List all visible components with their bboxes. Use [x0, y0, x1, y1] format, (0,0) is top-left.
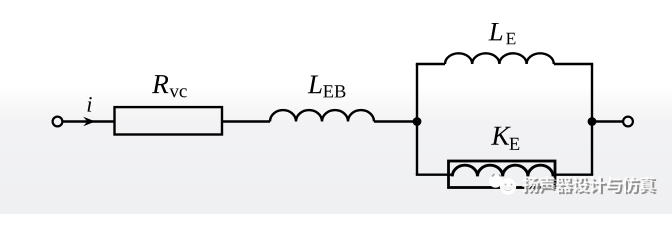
wire: resistor to inductor LEB [222, 120, 270, 122]
watermark logo blob [489, 174, 516, 195]
left branch vertical wire [416, 64, 418, 175]
label R of Rvc [152, 75, 168, 93]
label EB subscript [323, 85, 345, 97]
current arrow on input wire [83, 117, 95, 126]
semi-inductor KE coil [452, 165, 553, 176]
junction node right [588, 117, 597, 126]
wire: input terminal to resistor [63, 120, 115, 122]
wire: right junction to output terminal [592, 120, 622, 122]
semi-inductor KE box [449, 161, 556, 188]
watermark text 扬声器设计与仿真 (white emboss) [522, 176, 655, 192]
label E subscript of KE [509, 138, 519, 150]
label L of LE [489, 23, 503, 40]
label i [88, 97, 92, 112]
label L of LEB [308, 76, 322, 94]
top branch wire right [554, 63, 593, 65]
bottom branch wire right [553, 173, 593, 175]
label K of KE [491, 127, 511, 145]
input terminal (left) [53, 117, 63, 127]
inductor LEB coil [270, 110, 374, 121]
watermark text gray shadow [524, 178, 657, 194]
inductor LE coil [445, 53, 554, 64]
top branch wire left [416, 63, 445, 65]
junction node left [413, 117, 422, 126]
label vc subscript [169, 88, 186, 97]
right branch vertical wire [591, 64, 593, 175]
bottom branch wire left [416, 173, 453, 175]
resistor Rvc body [115, 107, 223, 134]
wire: LEB to left junction [374, 120, 418, 122]
label E subscript of LE [506, 33, 515, 45]
output terminal (right) [623, 117, 633, 127]
